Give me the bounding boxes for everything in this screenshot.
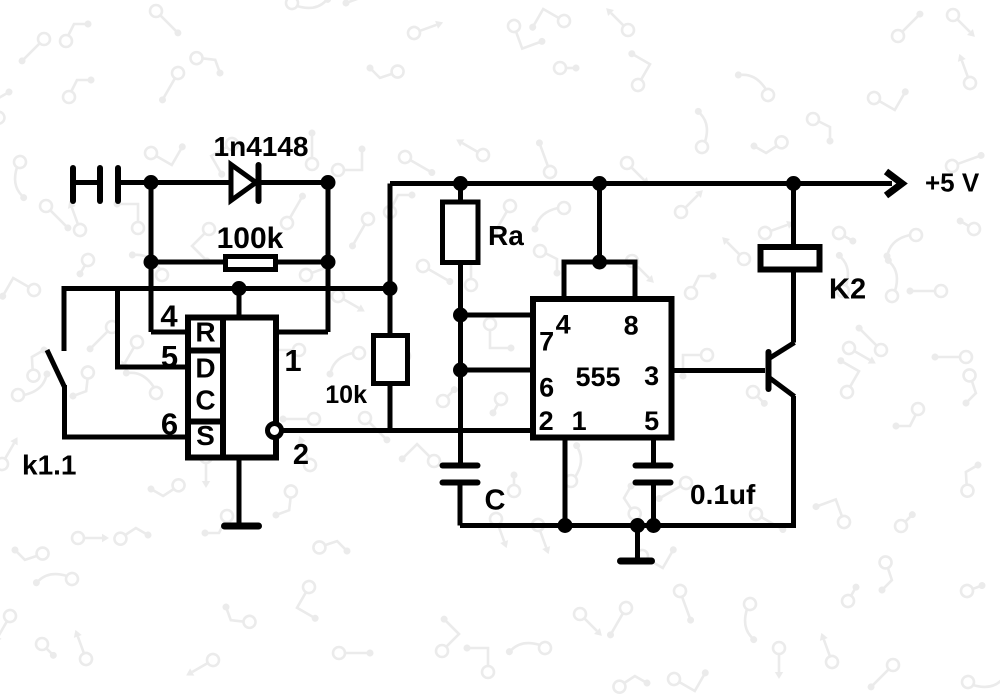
svg-text:5: 5	[161, 339, 178, 374]
junction pin7	[453, 308, 468, 323]
sensor plate bar left	[70, 168, 76, 201]
resistor 10k	[374, 336, 408, 384]
capacitor C plate bottom	[443, 480, 478, 486]
svg-text:6: 6	[539, 373, 554, 403]
wire Q output to 555 pin2	[282, 428, 534, 433]
transistor Q1 emitter	[769, 378, 795, 397]
capacitor C plate top	[443, 463, 478, 469]
svg-text:+5 V: +5 V	[925, 168, 980, 198]
svg-text:6: 6	[161, 407, 178, 442]
junction pin6	[453, 363, 468, 378]
resistor Ra	[443, 202, 479, 263]
svg-text:8: 8	[624, 311, 639, 341]
resistor 100k	[226, 257, 276, 270]
junction ground tee	[630, 518, 645, 533]
wire 0.1uf bottom stub	[651, 483, 656, 526]
svg-text:C: C	[485, 485, 506, 517]
junction Ra rail	[453, 176, 468, 191]
transistor Q1 base bar	[766, 352, 772, 389]
wire pin 1	[276, 330, 328, 335]
svg-text:k1.1: k1.1	[22, 450, 77, 481]
junction 555 vcc rail	[592, 176, 607, 191]
switch fixed contact	[62, 286, 67, 351]
svg-text:0.1uf: 0.1uf	[690, 479, 756, 510]
flip-flop inner column divider	[220, 318, 226, 458]
+5V rail	[390, 181, 892, 186]
wire Ra bottom vertical	[458, 263, 463, 464]
ff ground stem	[237, 458, 242, 524]
svg-text:3: 3	[644, 361, 659, 391]
wire pin 6 555	[461, 368, 534, 373]
junction pin1 bottom	[558, 518, 573, 533]
wire K2 top stub	[791, 184, 796, 248]
svg-text:K2: K2	[829, 274, 866, 306]
bottom ground wire	[460, 396, 794, 526]
svg-text:100k: 100k	[217, 222, 284, 255]
junction node A	[144, 175, 159, 190]
junction 10k top	[383, 281, 398, 296]
wire ff vcc stub	[237, 289, 242, 318]
svg-text:4: 4	[556, 310, 571, 340]
junction node B	[321, 175, 336, 190]
555 ground stem	[635, 526, 640, 559]
junction bracket	[592, 255, 607, 270]
junction 100k right	[321, 255, 336, 270]
flip-flop divider above S	[188, 419, 223, 425]
wire pin 7	[461, 313, 534, 318]
wire node A down to pin4 corner	[149, 183, 154, 333]
svg-text:1: 1	[284, 343, 301, 378]
wire Ra top stub	[458, 184, 463, 203]
svg-text:D: D	[195, 353, 215, 384]
wire C bottom stub	[458, 483, 463, 526]
wire 100k net	[151, 260, 328, 265]
wire pin 5 into D	[118, 286, 191, 367]
wire pin 3	[672, 368, 766, 373]
svg-text:S: S	[196, 420, 215, 451]
svg-text:C: C	[195, 385, 215, 416]
flip-flop divider under R	[188, 348, 223, 354]
wire pin 4 into R	[151, 330, 190, 335]
relay coil K2	[761, 247, 820, 270]
svg-text:1: 1	[572, 406, 587, 436]
555 body	[533, 299, 672, 438]
capacitor 0.1uf plate bottom	[636, 480, 671, 486]
555 vcc bracket	[564, 262, 635, 299]
junction K2 rail	[786, 176, 801, 191]
wire pin 1 555	[563, 438, 568, 526]
svg-text:R: R	[195, 317, 215, 348]
wire 10k vertical	[388, 184, 393, 431]
svg-text:2: 2	[539, 406, 554, 436]
svg-text:2: 2	[293, 439, 309, 471]
junction ff top	[232, 281, 247, 296]
ff ground bar	[225, 523, 259, 530]
wire sensor to diode	[118, 180, 232, 185]
wire K2 to collector	[791, 270, 796, 343]
svg-text:555: 555	[575, 362, 620, 392]
svg-text:5: 5	[644, 406, 659, 436]
switch k1.1 blade	[47, 350, 65, 387]
output bubble	[268, 424, 282, 438]
+5V arrowhead	[886, 172, 902, 196]
svg-text:7: 7	[539, 327, 554, 357]
555 ground bar	[621, 558, 652, 565]
svg-text:4: 4	[160, 299, 178, 334]
wire +5V distribution	[64, 286, 390, 291]
junction 0.1uf bottom	[646, 518, 661, 533]
svg-text:1n4148: 1n4148	[214, 131, 309, 162]
flip-flop U1 body	[188, 318, 276, 458]
svg-text:Ra: Ra	[488, 220, 524, 251]
wire switch bottom	[62, 385, 67, 437]
sensor capacitor plate A	[97, 168, 103, 201]
wire diode cathode to node B	[259, 180, 329, 185]
sensor capacitor plate B	[115, 168, 121, 201]
wire node B down	[326, 183, 331, 333]
wire pin 6 into S	[62, 435, 190, 440]
svg-text:10k: 10k	[325, 381, 367, 409]
junction 100k left	[144, 255, 159, 270]
diode D1 1n4148	[231, 165, 259, 202]
wire pin 5 stub	[651, 438, 656, 464]
capacitor 0.1uf plate top	[636, 463, 671, 469]
wire bracket to rail	[597, 184, 602, 263]
wire sensor bar1 to bar2	[73, 180, 100, 185]
transistor Q1 collector	[769, 343, 795, 359]
